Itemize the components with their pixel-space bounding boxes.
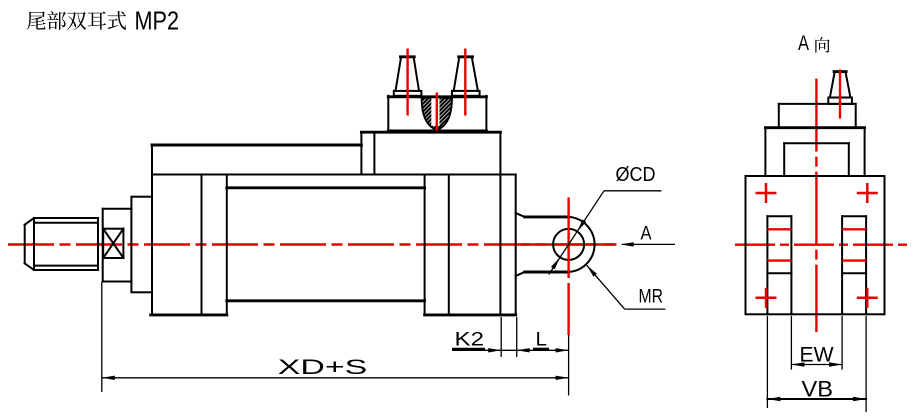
- rear block: [361, 132, 500, 174]
- dim CD: [549, 164, 662, 275]
- gland boss: [103, 209, 132, 282]
- plug P2 centerline: [464, 49, 466, 116]
- eye vertical centerline: [567, 197, 569, 395]
- view A left slot: [767, 216, 791, 314]
- main centerline eye segment: [521, 243, 617, 245]
- view A step2 block: [765, 128, 864, 177]
- pin gap centerline: [436, 93, 438, 132]
- view A plug centerline: [839, 70, 841, 119]
- view A pin hole lines: [767, 229, 866, 260]
- view A corner cross marks: [756, 183, 878, 308]
- view A plug: [828, 72, 852, 104]
- svg-text:A: A: [798, 32, 809, 55]
- view A step1 block: [779, 104, 856, 128]
- port head: [388, 96, 486, 132]
- svg-text:MP2: MP2: [135, 6, 180, 36]
- svg-text:ØCD: ØCD: [616, 164, 656, 186]
- front cap: [151, 145, 227, 315]
- dim L: [533, 330, 569, 353]
- dim MR: [587, 265, 666, 309]
- dim XD+S: [102, 282, 569, 392]
- plug P1: [394, 57, 422, 96]
- view A horizontal centerline: [735, 243, 908, 245]
- top plate: [152, 145, 516, 175]
- rear cap: [425, 132, 516, 315]
- gland plate: [131, 197, 152, 293]
- svg-text:EW: EW: [800, 344, 834, 367]
- end plate: [515, 175, 517, 315]
- clevis tang: [516, 213, 569, 276]
- dim K2: [452, 317, 569, 357]
- svg-text:MR: MR: [639, 286, 664, 308]
- svg-text:XD+S: XD+S: [278, 356, 368, 379]
- dim EW: [791, 316, 842, 370]
- view A body: [746, 176, 885, 314]
- view direction arrow A: [621, 224, 675, 247]
- clevis eye: [553, 217, 594, 272]
- view A step2 notch: [784, 143, 849, 176]
- title text 尾部双耳式 MP2: [27, 6, 179, 36]
- rod wrench flats box: [103, 229, 123, 258]
- view A title: [798, 32, 830, 55]
- view A right slot: [842, 216, 866, 314]
- svg-text:A: A: [641, 224, 652, 245]
- svg-text:VB: VB: [802, 377, 834, 402]
- main centerline: [8, 243, 617, 245]
- view A vertical centerline: [815, 79, 817, 332]
- svg-text:K2: K2: [455, 330, 485, 351]
- plug P1 centerline: [406, 49, 408, 116]
- plug P2: [452, 57, 480, 96]
- dim VB: [767, 316, 866, 412]
- cylinder tube: [227, 188, 425, 301]
- rod end thread: [25, 218, 98, 270]
- svg-text:L: L: [536, 330, 548, 351]
